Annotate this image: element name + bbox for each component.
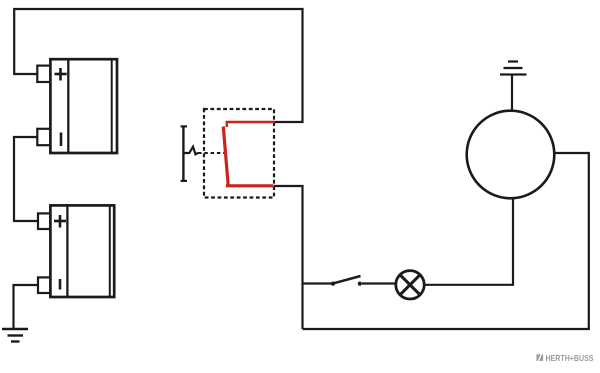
relay actuator bracket and spring (181, 126, 198, 181)
wire: B1 minus terminal left and down to B2 plus terminal (14, 137, 38, 221)
battery G1 (upper) (37, 59, 117, 153)
wire: B1 plus terminal up and across top to right vertical, down into relay top contact (14, 9, 302, 122)
relay K1 dashed enclosure (204, 109, 274, 198)
svg-text:HERTH+BUSS: HERTH+BUSS (546, 353, 594, 363)
logo: HERTH+BUSS mark (537, 354, 544, 362)
relay contact movable blade (red) (223, 127, 228, 186)
lamp E1 (circle with X) (396, 271, 424, 299)
wire: relay bottom contact to junction, down to bottom rail and switch branch (274, 186, 303, 329)
battery G1 minus bar (60, 133, 63, 147)
ground: top ground above motor (inverted) (500, 62, 527, 75)
wire: B2 minus terminal left and down to chassis ground (14, 285, 39, 329)
switch S1 (331, 276, 362, 286)
relay contact notch (red) (226, 121, 228, 127)
relay actuator linkage (dashed) (198, 152, 224, 154)
relay contact fixed top (red) (226, 121, 275, 124)
wire: lamp to motor bottom (425, 199, 514, 285)
battery G2 (lower) (38, 205, 114, 297)
battery G1 plus sign (55, 68, 67, 81)
motor M1 (circle) (467, 111, 555, 199)
wire: motor right side down to bottom rail back to junction (303, 153, 589, 329)
wire: junction to switch (303, 282, 334, 284)
battery G2 minus bar (59, 279, 62, 290)
wire: motor top to ground (511, 75, 513, 111)
battery G2 plus sign (54, 215, 66, 228)
ground: chassis ground bottom left (2, 329, 28, 342)
relay contact fixed bottom (red) (226, 184, 274, 187)
wire: switch to lamp (362, 282, 396, 284)
